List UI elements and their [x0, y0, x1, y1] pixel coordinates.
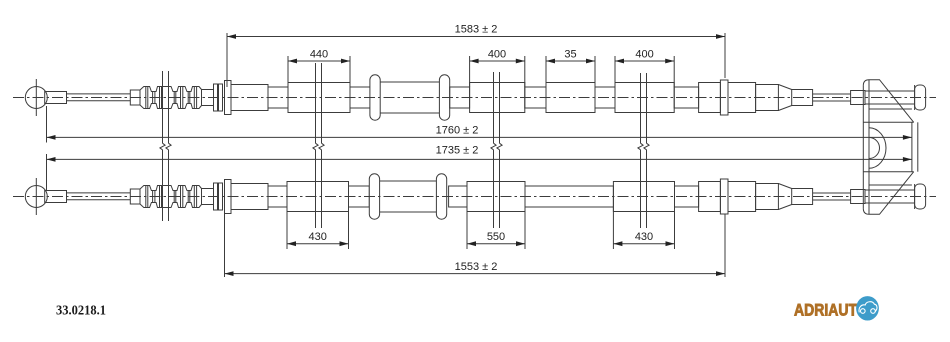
break lines pair 4 [638, 73, 643, 228]
svg-text:1735 ± 2: 1735 ± 2 [436, 145, 479, 157]
bottom cable bellows boot [140, 186, 202, 191]
top sleeve 440 [288, 83, 350, 113]
bottom cable barrel cap [915, 184, 926, 209]
ADRIAUTO logo blue disc [856, 296, 879, 320]
bottom cable boot collar [130, 189, 140, 204]
svg-text:430: 430 [635, 231, 653, 243]
svg-text:440: 440 [310, 49, 328, 61]
top cable right collar 2 [728, 83, 756, 113]
bottom conduit seg 5 [675, 186, 699, 207]
bottom cable end tip [792, 189, 813, 205]
bottom cable bracket rod [865, 189, 915, 191]
svg-text:400: 400 [488, 49, 506, 61]
bottom cable abutment rings [214, 183, 218, 210]
bracket U-notch inner [869, 138, 880, 159]
top sleeve 35 [546, 83, 595, 113]
svg-text:400: 400 [635, 49, 653, 61]
top conduit seg 5 [595, 87, 615, 108]
top cable end tip [792, 90, 813, 106]
svg-text:ADRIAUT: ADRIAUT [794, 300, 858, 319]
dimension 35 [545, 56, 547, 87]
svg-text:33.0218.1: 33.0218.1 [56, 303, 106, 318]
bottom conduit seg 2 [349, 186, 370, 207]
bottom conduit seg 4 [525, 186, 613, 207]
top conduit seg 4 [525, 87, 546, 108]
dimension 1583 [226, 33, 228, 87]
bottom sleeve 550 [467, 182, 525, 212]
dimension 1735 [46, 154, 48, 190]
top cable end cone [778, 85, 791, 90]
bottom cable clamp block [851, 190, 865, 204]
top sleeve 400 right [615, 83, 674, 113]
top cable barrel cap [915, 85, 926, 110]
top cable inner cable [67, 93, 131, 95]
top conduit seg 6 [674, 87, 698, 108]
top cable conduit end cap [231, 85, 268, 111]
dimension 400 left [469, 56, 471, 87]
bottom cable end rod [813, 192, 851, 194]
bottom cable right collar 2 [728, 182, 756, 212]
top conduit seg 3 [450, 87, 470, 108]
top grommet 2 [439, 75, 449, 120]
bottom cable abutment flange [225, 180, 232, 214]
top sleeve 400 left [470, 83, 525, 113]
top cable bellows boot [140, 87, 202, 92]
bottom cable inner cable [67, 192, 131, 194]
top cable right flange [720, 80, 728, 115]
bottom cable right sleeve end [756, 184, 779, 210]
top cable bracket rod [865, 90, 915, 92]
svg-text:35: 35 [564, 49, 576, 61]
top conduit seg 1 [268, 87, 288, 108]
bottom cable right collar [699, 182, 721, 212]
bracket U-notch outer [869, 128, 886, 169]
break lines pair 1 [160, 71, 165, 221]
top conduit seg 2 [350, 87, 370, 108]
top centerline [13, 97, 936, 99]
top cable boot collar [130, 90, 140, 105]
bottom cable conduit end cap [231, 184, 268, 210]
bracket bottom arm [869, 172, 914, 215]
top grommet 1 [370, 75, 380, 120]
svg-text:550: 550 [487, 231, 505, 243]
ADRIAUTO logo car doodle [859, 302, 877, 314]
bottom sleeve 430 left [287, 182, 349, 212]
bottom sleeve 430 right [613, 182, 674, 212]
top cable ball rod [45, 92, 67, 104]
top cable ferrule [202, 90, 214, 106]
dimension 1553 [224, 214, 226, 277]
break lines pair 3 [491, 72, 496, 228]
top cable abutment rings [214, 84, 218, 111]
dimension 430 right [612, 208, 614, 250]
bottom cable right flange [720, 179, 728, 214]
svg-text:1583 ± 2: 1583 ± 2 [455, 24, 498, 36]
break lines pair 2 [313, 63, 318, 228]
top cable end rod [813, 93, 851, 95]
equalizer bracket plate [863, 80, 869, 215]
bracket top arm [869, 80, 914, 123]
top cable abutment flange [225, 81, 232, 115]
bottom grommet 1 [369, 174, 379, 219]
svg-text:1553 ± 2: 1553 ± 2 [455, 261, 498, 273]
bottom cable end cone [778, 184, 791, 189]
bottom conduit seg 1 [268, 186, 287, 207]
bottom grommet tube [376, 180, 442, 182]
dimension 400 right [614, 56, 616, 87]
dimension 430 left [286, 208, 288, 250]
dimension 550 [466, 208, 468, 250]
dimension 440 [287, 56, 289, 87]
dimension 1760 [46, 106, 48, 143]
top cable clamp block [851, 91, 865, 105]
bottom cable ball end [25, 186, 47, 208]
bracket right flange [911, 122, 913, 171]
top cable right collar [699, 83, 721, 113]
bottom conduit seg 3 [449, 186, 467, 207]
bottom centerline [13, 196, 936, 198]
top cable ball end [25, 87, 47, 109]
bottom cable ball rod [45, 191, 67, 203]
top cable right sleeve end [756, 85, 779, 111]
bottom cable ferrule [202, 189, 214, 205]
top grommet tube [377, 81, 443, 83]
svg-text:430: 430 [309, 231, 327, 243]
bottom grommet 2 [436, 174, 446, 219]
svg-text:1760 ± 2: 1760 ± 2 [436, 125, 479, 137]
